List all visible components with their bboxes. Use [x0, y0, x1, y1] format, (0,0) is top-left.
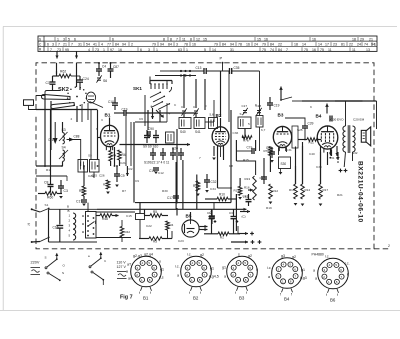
mains terminal 1 — [31, 208, 33, 210]
svg-text:PH4880: PH4880 — [312, 253, 324, 257]
svg-text:5: 5 — [69, 234, 71, 238]
svg-text:i.c.: i.c. — [345, 262, 350, 266]
svg-text:i.c.: i.c. — [325, 255, 330, 259]
svg-text:s: s — [238, 253, 240, 257]
svg-text:95: 95 — [65, 48, 69, 52]
capacitor C19b — [123, 110, 125, 116]
svg-text:C26: C26 — [99, 174, 105, 178]
wire sk2 down — [76, 106, 78, 122]
voltage selector — [86, 212, 97, 239]
svg-text:S: S — [62, 271, 64, 275]
svg-text:g2,g4: g2,g4 — [144, 253, 153, 257]
svg-text:C12: C12 — [158, 171, 164, 175]
resistor R48 — [100, 214, 112, 218]
svg-text:R5: R5 — [153, 210, 157, 214]
box B3 right — [292, 126, 298, 148]
bottom rail extension — [374, 248, 391, 250]
svg-text:1: 1 — [57, 38, 59, 42]
svg-text:2: 2 — [388, 244, 390, 248]
svg-text:R60: R60 — [47, 196, 53, 200]
svg-text:3: 3 — [176, 43, 178, 47]
svg-text:3: 3 — [233, 266, 235, 270]
svg-text:a: a — [256, 268, 258, 272]
svg-text:75: 75 — [304, 48, 308, 52]
capacitor C87 — [108, 68, 114, 70]
ground C3 — [59, 196, 63, 199]
svg-text:4: 4 — [282, 263, 284, 267]
wire if2 down — [244, 129, 246, 138]
resistor R60 — [45, 192, 57, 196]
wire mid v1 — [176, 129, 178, 203]
svg-text:16: 16 — [192, 43, 196, 47]
svg-text:g3: g3 — [281, 254, 285, 258]
svg-text:3: 3 — [63, 38, 65, 42]
svg-text:k,g4,5: k,g4,5 — [209, 275, 219, 279]
wire B2 legs — [217, 147, 219, 189]
svg-text:84: 84 — [278, 48, 282, 52]
svg-text:S: S — [39, 37, 41, 41]
resistor R17 — [319, 184, 323, 199]
svg-text:73: 73 — [95, 48, 99, 52]
svg-text:R15: R15 — [234, 189, 240, 193]
capacitor row2 a — [150, 152, 156, 154]
svg-text:16: 16 — [246, 43, 250, 47]
trimmer T2 — [194, 110, 198, 112]
wire y74 bus — [160, 70, 170, 72]
valve socket B6 — [318, 258, 349, 289]
svg-text:C3: C3 — [64, 189, 68, 193]
svg-text:R4: R4 — [122, 153, 126, 157]
svg-text:74: 74 — [364, 43, 368, 47]
svg-text:b: b — [105, 259, 107, 263]
wire x84 bus — [83, 166, 85, 178]
svg-text:3: 3 — [278, 267, 280, 271]
svg-text:2: 2 — [71, 117, 73, 121]
resistor R3 — [149, 237, 162, 241]
svg-text:7: 7 — [58, 43, 60, 47]
svg-text:15: 15 — [257, 38, 261, 42]
wire rm v2 — [295, 166, 297, 184]
wire selector links — [87, 203, 89, 211]
svg-text:77: 77 — [107, 43, 111, 47]
wire mid h1 — [135, 121, 167, 123]
svg-text:2: 2 — [136, 273, 138, 277]
wire x131 — [130, 122, 132, 166]
resistor R6 — [82, 186, 86, 196]
capacitor C2 — [50, 81, 56, 83]
wire mains h1 — [49, 208, 98, 210]
svg-text:4: 4 — [328, 263, 330, 267]
svg-text:94: 94 — [230, 43, 234, 47]
wire B4 verticals — [295, 147, 297, 185]
wire IF1 vertical — [183, 74, 185, 108]
svg-text:C1: C1 — [207, 211, 211, 215]
capacitor pair b — [153, 135, 159, 137]
svg-text:4: 4 — [169, 112, 171, 116]
SK2 drop wires — [81, 104, 83, 122]
svg-text:29: 29 — [360, 38, 364, 42]
wire mid v3 — [230, 110, 232, 203]
svg-text:S25: S25 — [297, 128, 303, 132]
svg-text:B6: B6 — [330, 298, 336, 303]
output transformer — [343, 126, 346, 152]
svg-text:B4: B4 — [316, 114, 322, 119]
svg-text:a: a — [177, 274, 179, 278]
AF bus — [135, 202, 231, 204]
wire bus left a — [36, 91, 60, 96]
svg-text:R13: R13 — [245, 177, 251, 181]
svg-text:11: 11 — [352, 48, 356, 52]
wire B4 leg right — [331, 150, 333, 157]
svg-text:84: 84 — [115, 43, 119, 47]
tube B3 — [273, 126, 291, 147]
resistor R7 — [106, 180, 110, 189]
svg-text:o: o — [159, 260, 161, 264]
ground B2 — [213, 146, 215, 156]
svg-text:3: 3 — [137, 266, 139, 270]
svg-text:R21: R21 — [337, 193, 343, 197]
valve socket B1 — [131, 256, 162, 287]
svg-text:C90: C90 — [148, 127, 154, 131]
svg-text:R30: R30 — [162, 189, 168, 193]
svg-text:22: 22 — [278, 43, 282, 47]
svg-text:8: 8 — [199, 278, 201, 282]
wire x50 down — [50, 110, 52, 179]
wire rm v1 — [263, 158, 265, 172]
svg-text:1: 1 — [103, 48, 105, 52]
svg-text:R14: R14 — [305, 188, 311, 192]
svg-text:5: 5 — [198, 261, 200, 265]
svg-text:5: 5 — [204, 48, 206, 52]
svg-text:3: 3 — [187, 266, 189, 270]
svg-text:C19: C19 — [274, 104, 280, 108]
IF transformer S41 — [194, 118, 205, 129]
wire B3 top — [285, 118, 305, 126]
wire pickup to chassis — [29, 105, 63, 109]
svg-text:97: 97 — [110, 48, 114, 52]
svg-text:1: 1 — [69, 214, 71, 218]
svg-text:B2: B2 — [193, 296, 199, 301]
wire B3 legs — [278, 148, 280, 156]
svg-text:73: 73 — [57, 48, 61, 52]
svg-text:4: 4 — [141, 261, 143, 265]
arrow B5 out — [200, 226, 208, 228]
svg-text:R12: R12 — [273, 189, 279, 193]
valve socket B4 — [272, 258, 303, 289]
svg-text:C1: C1 — [46, 81, 50, 85]
svg-text:13: 13 — [366, 48, 370, 52]
wire B1 right vertical — [114, 147, 116, 166]
svg-text:D.1: D.1 — [49, 138, 54, 142]
svg-text:S: S — [45, 256, 47, 260]
ground C17b — [82, 204, 86, 207]
wire S3S4 — [62, 122, 64, 133]
wire trafo bottom — [344, 152, 345, 167]
svg-text:SK2: SK2 — [58, 87, 69, 93]
svg-text:C24: C24 — [83, 77, 89, 81]
svg-text:R10: R10 — [219, 193, 225, 197]
svg-text:15: 15 — [203, 38, 207, 42]
switch group 1 — [47, 260, 57, 268]
svg-text:R42: R42 — [125, 230, 131, 234]
svg-text:6: 6 — [140, 48, 142, 52]
svg-text:g1: g1 — [210, 267, 214, 271]
svg-text:75: 75 — [320, 48, 324, 52]
svg-text:k: k — [347, 273, 349, 277]
svg-text:g1: g1 — [222, 266, 226, 270]
page edge lines — [3, 26, 397, 28]
svg-text:f: f — [326, 293, 327, 297]
svg-text:3: 3 — [101, 118, 103, 122]
svg-text:R2: R2 — [129, 167, 133, 171]
svg-text:24: 24 — [254, 43, 258, 47]
wire mains h2 — [49, 241, 98, 243]
svg-text:6: 6 — [47, 43, 49, 47]
IF transformer S40 — [179, 118, 191, 129]
wire B2 plate top — [228, 71, 230, 122]
diode D1 — [54, 122, 56, 138]
svg-text:R62: R62 — [60, 70, 66, 74]
svg-text:R4: R4 — [113, 154, 117, 158]
svg-text:7: 7 — [199, 156, 201, 160]
svg-text:1: 1 — [328, 280, 330, 284]
svg-text:31: 31 — [230, 48, 234, 52]
AC symbol right — [117, 271, 127, 273]
resistor R4b — [166, 221, 170, 230]
svg-text:B: B — [67, 205, 69, 209]
wire left vertical 1 — [44, 96, 46, 167]
svg-text:6: 6 — [340, 268, 342, 272]
svg-text:k,s: k,s — [159, 276, 164, 280]
svg-text:F: F — [205, 105, 207, 109]
svg-text:14: 14 — [212, 48, 216, 52]
capacitor C88 — [69, 138, 74, 142]
svg-text:21: 21 — [369, 38, 373, 42]
svg-text:C33: C33 — [316, 165, 322, 169]
resistor R1e — [218, 232, 229, 236]
svg-text:C15: C15 — [126, 214, 132, 218]
svg-text:8: 8 — [245, 278, 247, 282]
IF transformer S42 — [209, 118, 218, 129]
svg-text:C4: C4 — [102, 65, 106, 69]
svg-text:a: a — [268, 275, 270, 279]
svg-text:f: f — [150, 291, 151, 295]
wire x127 arrow — [126, 166, 128, 176]
S38 block — [279, 157, 291, 169]
SK2 lever long 1 — [42, 95, 71, 100]
svg-text:63: 63 — [178, 48, 182, 52]
svg-text:O: O — [63, 264, 66, 268]
wire aerial 2 — [76, 63, 78, 87]
svg-text:R17: R17 — [323, 188, 329, 192]
capacitor row2 b — [160, 152, 166, 154]
svg-text:2: 2 — [131, 43, 133, 47]
svg-text:g2: g2 — [248, 254, 252, 258]
arrow plus c — [231, 241, 248, 243]
svg-text:8: 8 — [290, 280, 292, 284]
svg-text:P: P — [220, 56, 223, 61]
svg-text:C22: C22 — [146, 224, 152, 228]
svg-text:7: 7 — [250, 273, 252, 277]
IF can S20 — [90, 160, 100, 173]
tuning arrow — [120, 144, 191, 146]
SK2 lever long 2 — [51, 103, 75, 109]
svg-text:4: 4 — [69, 229, 71, 233]
svg-text:BX221U-04-06-10: BX221U-04-06-10 — [357, 161, 364, 223]
svg-text:18: 18 — [294, 43, 298, 47]
coil unit circle — [86, 92, 95, 103]
svg-text:B: B — [68, 209, 70, 213]
trimmer C18 — [257, 110, 261, 112]
svg-text:84: 84 — [168, 43, 172, 47]
AC symbol left — [31, 267, 41, 269]
svg-text:94: 94 — [122, 43, 126, 47]
aerial input arrow 2 — [76, 51, 78, 58]
svg-text:C26: C26 — [88, 174, 94, 178]
wire B2 top — [220, 71, 222, 117]
svg-text:78: 78 — [184, 43, 188, 47]
svg-text:R7a: R7a — [243, 139, 249, 143]
capacitor C10 — [112, 102, 118, 104]
svg-text:C23: C23 — [178, 239, 184, 243]
wire rm v3 — [320, 152, 322, 184]
svg-text:B3: B3 — [278, 113, 284, 118]
svg-text:S31: S31 — [329, 156, 335, 160]
aerial input arrow 1 — [56, 51, 58, 58]
svg-text:5: 5 — [248, 122, 250, 126]
wire rm v4 — [327, 152, 329, 165]
junction left — [44, 165, 46, 167]
svg-text:3: 3 — [148, 48, 150, 52]
svg-text:C: C — [39, 43, 42, 47]
capacitor C30 — [329, 116, 331, 122]
svg-text:S: S — [240, 112, 242, 116]
svg-text:B1: B1 — [143, 296, 149, 301]
svg-text:C19: C19 — [122, 108, 128, 112]
svg-text:79: 79 — [262, 43, 266, 47]
svg-text:a: a — [313, 269, 315, 273]
wire v x176 — [175, 162, 177, 209]
svg-text:C13: C13 — [196, 66, 202, 70]
svg-text:54: 54 — [86, 43, 90, 47]
svg-text:7: 7 — [154, 273, 156, 277]
mains switch 1 — [40, 209, 49, 213]
IF can S19 — [78, 160, 88, 173]
svg-text:a: a — [126, 270, 128, 274]
svg-text:8: 8 — [255, 103, 257, 107]
wire lamp drop — [139, 203, 141, 214]
svg-text:C9: C9 — [135, 179, 139, 183]
svg-text:f: f — [189, 291, 190, 295]
wire T1 down — [183, 114, 185, 118]
svg-text:B4: B4 — [284, 297, 290, 302]
capacitor C24 — [77, 79, 83, 81]
svg-text:7: 7 — [295, 274, 297, 278]
svg-text:an: an — [128, 277, 132, 281]
svg-text:C40: C40 — [309, 152, 315, 156]
svg-text:R16: R16 — [289, 188, 295, 192]
wire x126 — [125, 110, 127, 166]
resistor R11 — [307, 138, 318, 142]
resistor R14 — [301, 184, 305, 199]
svg-text:2: 2 — [232, 273, 234, 277]
svg-text:R1: R1 — [46, 168, 50, 172]
svg-text:C32: C32 — [211, 180, 217, 184]
wire v x183 — [182, 160, 184, 209]
svg-text:S41: S41 — [195, 130, 201, 134]
valve socket B2 — [181, 256, 212, 287]
svg-text:1: 1 — [186, 48, 188, 52]
svg-text:5,6: 5,6 — [210, 113, 215, 117]
svg-text:S6: S6 — [103, 79, 107, 83]
svg-text:C10: C10 — [108, 100, 114, 104]
svg-text:1: 1 — [374, 43, 376, 47]
svg-text:R3: R3 — [153, 240, 157, 244]
svg-text:8: 8 — [336, 280, 338, 284]
mains terminal 2 — [31, 241, 33, 243]
svg-text:1: 1 — [156, 48, 158, 52]
svg-text:f: f — [246, 291, 247, 295]
svg-text:g2: g2 — [200, 253, 204, 257]
svg-text:41: 41 — [93, 43, 97, 47]
svg-text:k,g3: k,g3 — [300, 276, 307, 280]
svg-text:1: 1 — [105, 140, 107, 144]
svg-text:C3: C3 — [229, 211, 233, 215]
wire trafo top — [335, 100, 377, 102]
svg-text:2: 2 — [323, 275, 325, 279]
mains autotransformer — [73, 213, 76, 240]
svg-text:8: 8 — [149, 278, 151, 282]
svg-text:5: 5 — [289, 263, 291, 267]
svg-text:C36: C36 — [233, 131, 239, 135]
svg-text:C9: C9 — [121, 174, 125, 178]
resistor R7h — [242, 136, 252, 140]
wire R62 left — [56, 71, 58, 76]
lamp block — [136, 214, 145, 220]
svg-text:3: 3 — [324, 268, 326, 272]
trimmer C17 — [243, 110, 247, 112]
svg-text:1: 1 — [191, 278, 193, 282]
svg-text:4: 4 — [101, 43, 103, 47]
svg-text:S32: S32 — [352, 151, 358, 155]
wire R4c — [110, 147, 112, 151]
svg-text:g1: g1 — [160, 268, 164, 272]
wire mid v2 — [204, 79, 206, 110]
svg-text:C6: C6 — [139, 117, 143, 121]
svg-text:5: 5 — [244, 261, 246, 265]
svg-text:6: 6 — [74, 38, 76, 42]
wire fm right — [302, 100, 363, 102]
IF block small — [166, 132, 175, 143]
valve socket B3 — [227, 256, 258, 287]
svg-text:11: 11 — [328, 48, 332, 52]
wire mains v — [48, 209, 50, 242]
resistor R9 — [196, 181, 200, 191]
resistor R12 — [269, 184, 273, 199]
trimming table — [38, 36, 377, 51]
pickup connector — [24, 100, 34, 106]
resistor R15 — [238, 186, 242, 195]
svg-text:C: C — [174, 103, 177, 107]
wire SK1 out — [159, 110, 161, 122]
svg-text:31: 31 — [78, 43, 82, 47]
svg-text:4: 4 — [88, 48, 90, 52]
wire C7a — [255, 140, 257, 151]
svg-text:g2: g2 — [292, 255, 296, 259]
svg-text:23: 23 — [333, 43, 337, 47]
svg-text:74: 74 — [270, 48, 274, 52]
svg-text:R4: R4 — [170, 223, 174, 227]
